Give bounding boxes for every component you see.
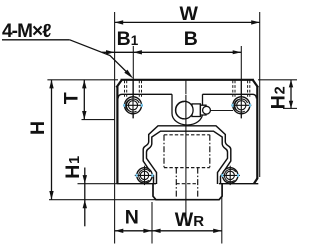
svg-text:W: W [180, 3, 199, 25]
svg-text:H: H [27, 121, 49, 135]
svg-text:WR: WR [175, 209, 204, 231]
svg-text:N: N [125, 206, 139, 228]
svg-text:T: T [61, 92, 83, 104]
svg-text:B: B [184, 28, 198, 50]
svg-text:4-M×ℓ: 4-M×ℓ [2, 21, 51, 42]
